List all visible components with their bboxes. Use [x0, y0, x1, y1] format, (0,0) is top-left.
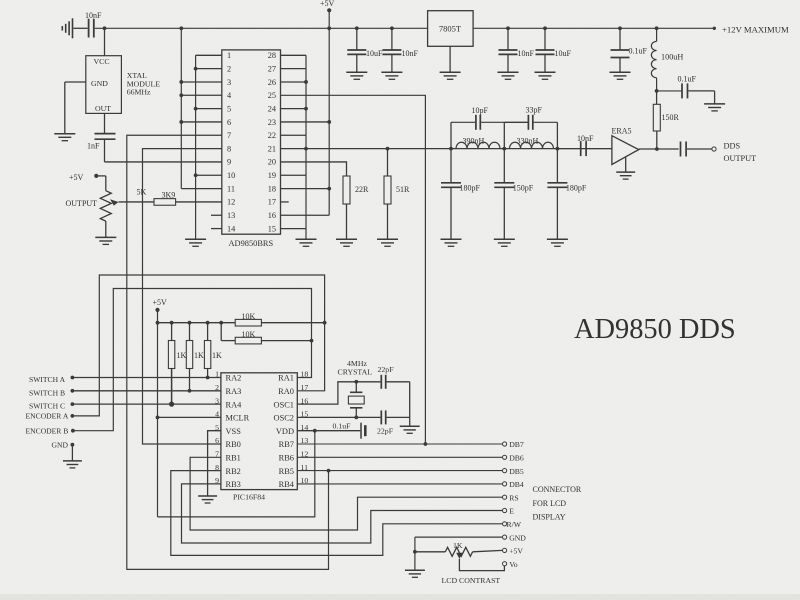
svg-text:+5V: +5V	[153, 298, 168, 307]
svg-text:RB5: RB5	[279, 467, 294, 476]
svg-text:25: 25	[268, 91, 276, 100]
svg-text:AD9850BRS: AD9850BRS	[229, 239, 274, 248]
svg-text:RB6: RB6	[279, 454, 294, 463]
svg-text:DB5: DB5	[509, 467, 524, 476]
svg-text:AD9850 DDS: AD9850 DDS	[574, 314, 736, 345]
svg-text:+5V: +5V	[69, 173, 84, 182]
svg-text:5K: 5K	[137, 188, 147, 197]
svg-text:11: 11	[227, 184, 235, 193]
svg-text:1: 1	[227, 51, 231, 60]
svg-text:17: 17	[301, 383, 309, 392]
svg-text:22R: 22R	[355, 185, 369, 194]
svg-text:R/W: R/W	[507, 520, 522, 529]
svg-text:4: 4	[215, 410, 219, 419]
svg-text:22: 22	[268, 131, 276, 140]
svg-text:51R: 51R	[396, 185, 410, 194]
svg-text:OUT: OUT	[95, 104, 111, 113]
svg-text:0.1uF: 0.1uF	[678, 75, 697, 84]
svg-text:+12V MAXIMUM: +12V MAXIMUM	[722, 25, 789, 35]
svg-text:OSC1: OSC1	[274, 400, 294, 409]
svg-text:1K: 1K	[212, 351, 222, 360]
svg-text:15: 15	[268, 224, 276, 233]
svg-text:DDS: DDS	[724, 142, 741, 151]
svg-text:RB3: RB3	[226, 480, 241, 489]
svg-text:18: 18	[301, 370, 309, 379]
svg-text:PIC16F84: PIC16F84	[233, 493, 265, 502]
svg-text:SWITCH C: SWITCH C	[29, 402, 65, 411]
svg-text:17: 17	[268, 198, 276, 207]
svg-text:SWITCH B: SWITCH B	[29, 388, 65, 397]
svg-text:16: 16	[268, 211, 276, 220]
svg-text:VDD: VDD	[276, 427, 294, 436]
svg-text:66MHz: 66MHz	[127, 88, 151, 97]
svg-text:GND: GND	[52, 441, 69, 450]
svg-text:150pF: 150pF	[513, 184, 534, 193]
svg-text:150R: 150R	[662, 113, 680, 122]
svg-text:CRYSTAL: CRYSTAL	[338, 368, 373, 377]
svg-text:RA3: RA3	[226, 387, 242, 396]
svg-text:1K: 1K	[453, 541, 463, 550]
svg-text:3: 3	[215, 396, 219, 405]
svg-text:20: 20	[268, 158, 276, 167]
svg-text:3: 3	[227, 78, 231, 87]
svg-text:+5V: +5V	[320, 0, 335, 8]
svg-text:10nF: 10nF	[402, 49, 419, 58]
svg-text:FOR LCD: FOR LCD	[533, 499, 567, 508]
svg-text:CONNECTOR: CONNECTOR	[533, 485, 582, 494]
svg-text:GND: GND	[91, 79, 108, 88]
svg-text:5: 5	[227, 104, 231, 113]
svg-text:OSC2: OSC2	[274, 414, 294, 423]
svg-text:ENCODER B: ENCODER B	[26, 426, 69, 435]
svg-text:RA0: RA0	[278, 387, 294, 396]
svg-text:6: 6	[215, 436, 219, 445]
svg-text:MCLR: MCLR	[226, 414, 250, 423]
svg-text:DISPLAY: DISPLAY	[533, 513, 566, 522]
svg-text:1nF: 1nF	[87, 141, 100, 150]
svg-text:10nF: 10nF	[577, 134, 594, 143]
svg-text:7: 7	[227, 131, 231, 140]
svg-text:RA1: RA1	[278, 374, 294, 383]
svg-text:SWITCH A: SWITCH A	[29, 375, 66, 384]
svg-text:DB7: DB7	[509, 440, 524, 449]
svg-text:VCC: VCC	[94, 57, 110, 66]
svg-text:2: 2	[215, 383, 219, 392]
svg-text:OUTPUT: OUTPUT	[66, 199, 98, 208]
svg-text:+5V: +5V	[509, 547, 523, 556]
svg-text:Vo: Vo	[509, 560, 518, 569]
svg-text:0.1uF: 0.1uF	[629, 47, 648, 56]
svg-text:3K9: 3K9	[162, 190, 176, 199]
svg-text:6: 6	[227, 118, 231, 127]
svg-text:OUTPUT: OUTPUT	[724, 154, 757, 163]
svg-text:GND: GND	[509, 533, 526, 542]
svg-text:8: 8	[227, 144, 231, 153]
svg-text:390nH: 390nH	[463, 137, 485, 146]
svg-text:9: 9	[227, 158, 231, 167]
svg-text:DB4: DB4	[509, 480, 524, 489]
svg-text:100uH: 100uH	[661, 53, 683, 62]
svg-text:28: 28	[268, 51, 276, 60]
svg-text:10nF: 10nF	[518, 49, 535, 58]
svg-text:24: 24	[268, 104, 277, 113]
svg-text:26: 26	[268, 78, 276, 87]
svg-text:VSS: VSS	[226, 427, 242, 436]
svg-text:19: 19	[268, 171, 276, 180]
svg-text:12: 12	[227, 198, 235, 207]
svg-text:RB1: RB1	[226, 454, 241, 463]
svg-text:13: 13	[227, 211, 235, 220]
svg-text:180pF: 180pF	[566, 184, 587, 193]
svg-text:2: 2	[227, 64, 231, 73]
svg-text:E: E	[509, 507, 514, 516]
svg-text:RA2: RA2	[226, 374, 242, 383]
svg-text:10pF: 10pF	[472, 106, 489, 115]
svg-text:330nH: 330nH	[517, 137, 539, 146]
svg-text:21: 21	[268, 144, 276, 153]
svg-text:1K: 1K	[177, 351, 187, 360]
svg-text:27: 27	[268, 64, 276, 73]
svg-text:10K: 10K	[242, 312, 256, 321]
svg-text:RB2: RB2	[226, 467, 241, 476]
svg-text:RS: RS	[509, 493, 518, 502]
svg-text:10nF: 10nF	[85, 11, 102, 20]
svg-text:33pF: 33pF	[526, 106, 543, 115]
svg-text:RB0: RB0	[226, 440, 241, 449]
svg-text:14: 14	[227, 224, 236, 233]
svg-text:RA4: RA4	[226, 400, 243, 409]
svg-text:23: 23	[268, 118, 276, 127]
svg-text:RB4: RB4	[279, 480, 295, 489]
svg-text:18: 18	[268, 184, 276, 193]
svg-text:0.1uF: 0.1uF	[333, 422, 352, 431]
svg-text:1: 1	[215, 370, 219, 379]
svg-text:180pF: 180pF	[460, 184, 481, 193]
svg-text:ENCODER A: ENCODER A	[26, 412, 69, 421]
svg-text:1K: 1K	[194, 351, 204, 360]
svg-text:10K: 10K	[242, 330, 256, 339]
svg-text:ERA5: ERA5	[612, 127, 632, 136]
svg-text:10uF: 10uF	[555, 49, 572, 58]
svg-text:RB7: RB7	[279, 440, 294, 449]
svg-text:LCD CONTRAST: LCD CONTRAST	[442, 576, 501, 585]
svg-text:10uF: 10uF	[366, 49, 383, 58]
svg-text:10: 10	[227, 171, 235, 180]
svg-text:7805T: 7805T	[439, 24, 462, 34]
svg-text:DB6: DB6	[509, 454, 524, 463]
svg-text:22pF: 22pF	[378, 365, 395, 374]
svg-text:22pF: 22pF	[377, 427, 394, 436]
